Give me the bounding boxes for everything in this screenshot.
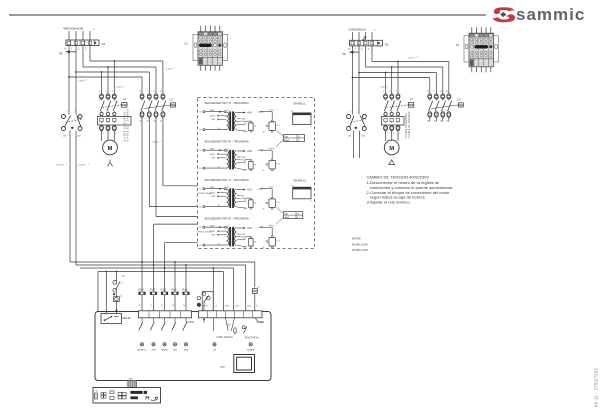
wire C2 pole1 down to fuse F4 xyxy=(141,117,143,292)
svg-text:2: 2 xyxy=(125,86,126,88)
svg-text:(Fu)2: (Fu)2 xyxy=(171,290,177,292)
relay RL1 xyxy=(271,197,273,199)
pressure switch box xyxy=(202,292,213,311)
svg-text:M: M xyxy=(108,146,113,152)
svg-text:C1: C1 xyxy=(121,283,124,285)
svg-text:2: 2 xyxy=(276,224,277,226)
wire fuse column F2 xyxy=(174,262,176,292)
svg-text:40: 40 xyxy=(199,130,201,132)
svg-text:NA2b: NA2b xyxy=(285,216,290,219)
svg-text:0h: 0h xyxy=(263,131,265,133)
svg-text:SH-800 LL: SH-800 LL xyxy=(294,102,307,106)
contactor C1 mech link xyxy=(103,105,123,108)
primary terminal 41 xyxy=(203,111,205,113)
contactor C1 blades xyxy=(385,99,387,101)
motor wires C1 xyxy=(101,131,103,141)
wire 21 column xyxy=(212,268,214,311)
svg-text:GN4: GN4 xyxy=(173,349,178,351)
svg-text:GND: GND xyxy=(259,322,264,324)
neutral jumper diagonal xyxy=(363,37,367,41)
thermal relay lower terminals xyxy=(100,126,104,131)
secondary output arrows xyxy=(237,150,244,152)
primary terminal 42 xyxy=(224,149,226,151)
right branch H4 xyxy=(353,77,430,79)
svg-text:SH-800 B1 7,5A/400V: SH-800 B1 7,5A/400V xyxy=(126,108,129,141)
primary terminal 40 xyxy=(203,167,205,169)
speaker module LC xyxy=(293,187,311,199)
svg-text:Ch1: Ch1 xyxy=(277,125,280,127)
thermal relay contacts xyxy=(100,112,103,115)
connector CON1 xyxy=(139,311,192,318)
svg-text:24V: 24V xyxy=(242,234,246,236)
terminal detail top wires xyxy=(200,26,202,32)
svg-text:T: T xyxy=(434,91,436,93)
primary feed line xyxy=(205,149,224,151)
svg-text:41: 41 xyxy=(199,227,201,229)
svg-text:6: 6 xyxy=(139,305,141,307)
buzzer icons xyxy=(146,397,149,400)
svg-text:1: 1 xyxy=(355,48,357,51)
svg-text:240: 240 xyxy=(63,136,67,138)
transformer windings xyxy=(227,112,229,116)
sammic logo xyxy=(492,3,585,27)
stub under CON2 a xyxy=(203,318,205,323)
svg-text:1: 1 xyxy=(383,91,385,93)
svg-text:24V: 24V xyxy=(242,157,246,159)
svg-text:41: 41 xyxy=(199,112,201,114)
svg-text:2: 2 xyxy=(387,133,389,135)
svg-text:Ch1: Ch1 xyxy=(277,164,280,166)
svg-text:230V: 230V xyxy=(210,225,216,227)
svg-text:9: 9 xyxy=(161,305,163,307)
contactor C2 lower terminals xyxy=(140,112,144,117)
right branch H2 xyxy=(366,66,443,68)
svg-text:CAMBIO DE TENSION 400V/230V: CAMBIO DE TENSION 400V/230V xyxy=(367,174,430,179)
svg-text:c: c xyxy=(220,62,221,64)
svg-text:3: 3 xyxy=(105,91,107,93)
wire C2 coil to CON2 xyxy=(254,293,256,310)
terminal block D1 left xyxy=(66,40,99,46)
svg-text:SECUNDARIA TIPO 'N' - TRF2/: SECUNDARIA TIPO 'N' - TRF2/400V/A xyxy=(205,101,250,105)
svg-text:4: 4 xyxy=(109,133,111,135)
link to transformer primary a xyxy=(163,185,198,187)
terminal detail body xyxy=(198,32,223,66)
border line top xyxy=(9,14,486,16)
svg-text:400V/50Hz/3N: 400V/50Hz/3N xyxy=(63,27,83,31)
primary terminal 40 xyxy=(203,244,205,246)
motor M right xyxy=(384,140,399,155)
svg-text:3: 3 xyxy=(85,48,87,51)
svg-text:2: 2 xyxy=(175,68,176,70)
transformer core xyxy=(229,227,231,247)
svg-text:240: 240 xyxy=(348,136,352,138)
terminal detail top cells xyxy=(470,34,474,37)
svg-text:C1: C1 xyxy=(120,295,123,297)
relay RL1 xyxy=(271,120,273,122)
bus line B3 xyxy=(80,267,234,269)
gnd stub xyxy=(255,318,259,323)
svg-text:230V: 230V xyxy=(210,110,216,112)
svg-text:b: b xyxy=(211,62,212,64)
svg-text:a: a xyxy=(350,111,352,113)
switch contact C1 aux xyxy=(113,280,117,284)
svg-text:S: S xyxy=(440,91,442,93)
link to transformer primary c xyxy=(156,216,198,218)
svg-text:S: S xyxy=(153,91,155,93)
svg-text:230V: 230V xyxy=(210,187,216,189)
wire 0V xyxy=(237,246,247,247)
bus junction dots xyxy=(141,261,143,263)
svg-text:S: S xyxy=(310,126,312,128)
svg-text:PC: PC xyxy=(221,365,226,369)
svg-text:PE: PE xyxy=(59,53,63,56)
svg-text:3: 3 xyxy=(368,48,370,51)
motor wires C1 xyxy=(385,131,387,141)
contactor C2 blades xyxy=(141,99,143,101)
svg-text:R: R xyxy=(160,91,162,93)
svg-text:SH-800 B1 13A/230V: SH-800 B1 13A/230V xyxy=(408,111,411,138)
svg-text:160: 160 xyxy=(247,305,251,307)
svg-text:SECUNDARIA TIPO 'U' - TRF1/: SECUNDARIA TIPO 'U' - TRF1/400V/A xyxy=(205,178,250,182)
svg-text:32: 32 xyxy=(206,305,209,307)
svg-text:4,5mm: 4,5mm xyxy=(269,225,275,227)
terminal detail lower band xyxy=(469,58,494,60)
svg-text:NM1: NM1 xyxy=(129,379,133,381)
svg-text:2: 2 xyxy=(276,186,277,188)
thermal relay lower terminals xyxy=(384,126,388,131)
svg-text:C2: C2 xyxy=(457,97,461,101)
primary feed line xyxy=(205,188,224,190)
LED bomba xyxy=(249,343,252,346)
svg-text:6: 6 xyxy=(116,133,118,135)
rectifier module xyxy=(250,237,252,239)
svg-text:0V: 0V xyxy=(244,132,247,134)
thermal relay contacts xyxy=(384,112,387,115)
svg-text:GN3: GN3 xyxy=(151,349,156,351)
rectifier module xyxy=(250,198,252,200)
primary terminal 42 xyxy=(224,188,226,190)
svg-text:a: a xyxy=(358,110,360,112)
transformer core xyxy=(229,150,231,170)
svg-text:2: 2 xyxy=(276,147,277,149)
delta connection symbol xyxy=(389,160,395,165)
svg-text:a: a xyxy=(67,111,69,113)
wire 0V xyxy=(237,169,247,170)
primary feed line xyxy=(205,111,224,113)
svg-text:RELE1: RELE1 xyxy=(123,316,132,320)
svg-text:2: 2 xyxy=(103,133,105,135)
svg-text:GN6: GN6 xyxy=(184,349,189,351)
contactor C2 lower terminals xyxy=(428,112,432,117)
contactor C2 mech link xyxy=(431,105,459,109)
svg-text:8: 8 xyxy=(297,217,298,219)
svg-text:FUSO PE A): FUSO PE A) xyxy=(245,336,259,339)
svg-text:0h: 0h xyxy=(263,170,265,172)
svg-text:D1: D1 xyxy=(456,43,460,47)
mufla wires xyxy=(226,318,229,331)
right branch H1 xyxy=(372,61,449,63)
svg-text:4,5mm: 4,5mm xyxy=(269,148,275,150)
svg-text:2: 2 xyxy=(161,141,162,143)
svg-text:N: N xyxy=(348,48,350,51)
connector CON2 xyxy=(199,311,263,318)
terminal block D1 right xyxy=(350,40,383,46)
svg-text:SH-806 1,5 kW: SH-806 1,5 kW xyxy=(352,244,368,246)
stub under CON2 b xyxy=(212,318,214,331)
primary terminal 42 xyxy=(224,111,226,113)
svg-text:+22V: +22V xyxy=(247,228,253,230)
triac heatsink xyxy=(234,355,255,373)
wire 0V xyxy=(237,130,247,131)
primary terminal 41 xyxy=(203,188,205,190)
svg-text:4,5mm: 4,5mm xyxy=(269,110,275,112)
breaker blade 2 xyxy=(77,116,81,128)
primary terminal 42 xyxy=(224,226,226,228)
svg-text:24: 24 xyxy=(218,205,220,207)
transformer core xyxy=(229,111,231,130)
wire secondary to rectifier xyxy=(237,237,251,240)
svg-text:2: 2 xyxy=(66,164,67,166)
svg-text:2: 2 xyxy=(78,48,80,51)
breaker mech link dashed xyxy=(351,119,366,122)
svg-text:R: R xyxy=(446,91,448,93)
wire breaker out right xyxy=(75,131,77,265)
pressure switch terminals xyxy=(197,296,201,300)
svg-text:FUSO 10,63 A): FUSO 10,63 A) xyxy=(217,336,233,339)
svg-text:40: 40 xyxy=(199,207,201,209)
svg-text:5: 5 xyxy=(395,91,397,93)
svg-text:2: 2 xyxy=(417,57,418,59)
breaker terminal circles xyxy=(347,115,351,119)
right feeder N xyxy=(352,46,354,115)
motor M left xyxy=(103,140,118,155)
terminal detail mounting ears xyxy=(464,36,469,62)
svg-text:42: 42 xyxy=(227,225,229,227)
svg-text:~: ~ xyxy=(93,28,96,32)
speaker module LL xyxy=(293,113,311,125)
svg-text:N: N xyxy=(256,305,258,307)
transformer windings xyxy=(227,189,229,193)
svg-text:1,5mm: 1,5mm xyxy=(116,87,123,89)
svg-text:290: 290 xyxy=(225,305,229,307)
PCB board outline xyxy=(95,312,271,381)
terminal detail lower band xyxy=(198,56,223,58)
wire branch H1 to contactors xyxy=(90,60,163,62)
svg-text:300: 300 xyxy=(122,276,126,278)
svg-text:a: a xyxy=(477,64,478,66)
options dashed box xyxy=(198,98,315,249)
wire L1 down to breaker xyxy=(75,46,77,115)
svg-text:(Fu)1: (Fu)1 xyxy=(182,290,188,292)
wire 0V xyxy=(237,207,247,208)
svg-text:0V: 0V xyxy=(244,170,247,172)
svg-text:5: 5 xyxy=(112,91,114,93)
svg-text:NA1: NA1 xyxy=(285,213,289,216)
svg-text:(Fu)3: (Fu)3 xyxy=(161,290,167,292)
svg-text:D1: D1 xyxy=(185,41,189,45)
svg-text:220V: 220V xyxy=(210,231,216,233)
right feeder 2 xyxy=(365,46,367,67)
svg-text:MOTOR: MOTOR xyxy=(352,239,361,241)
contactor C2 top terminals xyxy=(140,94,144,99)
svg-text:C1: C1 xyxy=(123,97,127,101)
contactor C2 right wire stubs xyxy=(429,117,431,121)
svg-text:N: N xyxy=(427,91,429,93)
right branch H3 xyxy=(359,72,436,74)
svg-text:0V: 0V xyxy=(242,121,245,123)
svg-text:T: T xyxy=(147,91,149,93)
thermal relay F1 box xyxy=(382,117,405,126)
wire branch H3 xyxy=(76,71,149,73)
contactor C1 mech link xyxy=(387,105,409,108)
relay RL1 xyxy=(271,159,273,161)
svg-text:+40V: +40V xyxy=(247,112,253,114)
wire supply drops to D1 xyxy=(68,31,70,40)
svg-text:TIL: TIL xyxy=(96,390,99,392)
svg-text:2: 2 xyxy=(88,164,89,166)
svg-text:c: c xyxy=(491,64,492,66)
wire C1 coil column xyxy=(116,272,118,283)
bus line B1 xyxy=(70,261,255,263)
svg-text:220V: 220V xyxy=(210,192,216,194)
contactor C2 top terminals xyxy=(428,94,432,99)
secondary output arrows xyxy=(237,227,244,229)
svg-text:10: 10 xyxy=(183,305,186,307)
terminal detail circles grid xyxy=(200,37,203,40)
svg-text:0,75mm: 0,75mm xyxy=(56,165,64,167)
terminal detail dark pole xyxy=(219,44,222,47)
contactor C2 mech link xyxy=(144,105,172,109)
wire C2 pole2 down xyxy=(148,117,150,206)
svg-text:24V: 24V xyxy=(242,118,246,120)
primary terminal 41 xyxy=(203,226,205,228)
svg-text:40: 40 xyxy=(199,245,201,247)
svg-text:160: 160 xyxy=(235,305,239,307)
rectifier module xyxy=(250,121,252,123)
wire branch H2 xyxy=(83,66,156,68)
contactor C1 top terminals xyxy=(384,94,388,99)
svg-text:4,5mm: 4,5mm xyxy=(269,187,275,189)
wire N phase down to breaker xyxy=(68,46,70,115)
svg-text:"A": "A" xyxy=(291,185,294,188)
secondary output arrows xyxy=(237,112,244,114)
svg-text:R1: R1 xyxy=(254,126,256,128)
right feeder L1 xyxy=(358,46,360,115)
svg-text:NA2b: NA2b xyxy=(285,139,290,142)
transformer windings xyxy=(227,151,229,155)
svg-text:0,75mm: 0,75mm xyxy=(78,165,86,167)
fuse PE xyxy=(242,326,245,329)
relay RELE1 xyxy=(101,314,122,324)
svg-text:3-Ajustar el rele termico.: 3-Ajustar el rele termico. xyxy=(367,200,411,205)
svg-text:b: b xyxy=(482,64,483,66)
svg-text:0V: 0V xyxy=(242,160,245,162)
svg-text:8V: 8V xyxy=(242,195,245,197)
relay contacts under CON1 xyxy=(141,318,143,322)
svg-text:24V: 24V xyxy=(211,196,215,198)
link to transformer primary e xyxy=(165,242,198,244)
wire phase 3 drop xyxy=(89,46,91,61)
thermal relay F1 box xyxy=(98,117,132,126)
svg-text:1,5mm: 1,5mm xyxy=(408,58,415,60)
svg-text:0V: 0V xyxy=(242,237,245,239)
wire secondary to rectifier xyxy=(237,198,251,201)
svg-text:1,5mm: 1,5mm xyxy=(380,87,387,89)
terminal detail column dividers xyxy=(473,33,475,59)
wire secondary to rectifier xyxy=(237,160,251,163)
svg-text:D1: D1 xyxy=(102,42,106,46)
svg-text:400: 400 xyxy=(361,136,365,138)
svg-text:230V: 230V xyxy=(210,148,216,150)
wire C2 pole3 down xyxy=(155,117,157,216)
svg-text:220V: 220V xyxy=(210,154,216,156)
svg-text:(Fu)4: (Fu)4 xyxy=(138,290,144,292)
svg-text:sammic: sammic xyxy=(516,5,585,24)
svg-text:0V: 0V xyxy=(242,198,245,200)
svg-text:~: ~ xyxy=(374,28,377,32)
relay RL1 xyxy=(271,236,273,238)
LED 24h xyxy=(213,343,216,346)
svg-text:3: 3 xyxy=(389,91,391,93)
terminal detail jumper bar xyxy=(199,44,212,47)
wire S1 column xyxy=(105,272,107,314)
contactor C1 top terminals xyxy=(100,94,104,99)
primary terminal 40 xyxy=(203,129,205,131)
svg-text:05-11 - 2700/7232: 05-11 - 2700/7232 xyxy=(594,368,599,407)
svg-text:Ch1: Ch1 xyxy=(277,202,280,204)
svg-text:BOMBA: BOMBA xyxy=(247,348,255,351)
LED row xyxy=(140,343,143,346)
svg-text:CON1: CON1 xyxy=(187,320,195,324)
terminal detail jumper bar xyxy=(475,45,489,48)
primary terminal 40 xyxy=(203,206,205,208)
breaker blade 1 xyxy=(350,116,354,128)
svg-text:2: 2 xyxy=(87,80,88,82)
svg-text:R1: R1 xyxy=(254,165,256,167)
display 7seg lower xyxy=(130,396,138,399)
keypad connector xyxy=(94,393,97,399)
wire breaker out left xyxy=(69,131,71,262)
svg-text:41: 41 xyxy=(199,189,201,191)
svg-text:42: 42 xyxy=(227,110,229,112)
keypad buttons C xyxy=(118,392,122,395)
svg-text:12: 12 xyxy=(172,305,175,307)
link to transformer primary d xyxy=(154,223,198,225)
svg-text:24: 24 xyxy=(218,128,220,130)
svg-text:+12V: +12V xyxy=(247,189,253,191)
svg-text:41: 41 xyxy=(199,150,201,152)
svg-text:SECUNDARIA TIPO 'B' - TRF1/: SECUNDARIA TIPO 'B' - TRF1/400V/A xyxy=(205,217,249,221)
wire branch H4 xyxy=(69,76,142,78)
svg-text:1,5mm: 1,5mm xyxy=(78,81,85,83)
keypad buttons A xyxy=(101,393,103,395)
value table 2 xyxy=(284,212,303,219)
svg-text:C1: C1 xyxy=(410,97,414,101)
wire fuse column F1 xyxy=(185,265,187,292)
svg-text:a: a xyxy=(206,62,207,64)
bus line B2 xyxy=(76,264,246,266)
wire phase 2 drop xyxy=(82,46,84,67)
svg-text:1: 1 xyxy=(99,91,101,93)
right breaker stubs xyxy=(353,131,355,158)
right feeder 3 xyxy=(371,46,373,62)
svg-text:NA1: NA1 xyxy=(285,135,289,138)
breaker terminal circles xyxy=(62,115,66,119)
terminal detail dark pole xyxy=(490,46,493,49)
svg-text:1: 1 xyxy=(71,48,73,51)
terminal detail body xyxy=(469,33,494,67)
svg-text:24V: 24V xyxy=(211,235,215,237)
